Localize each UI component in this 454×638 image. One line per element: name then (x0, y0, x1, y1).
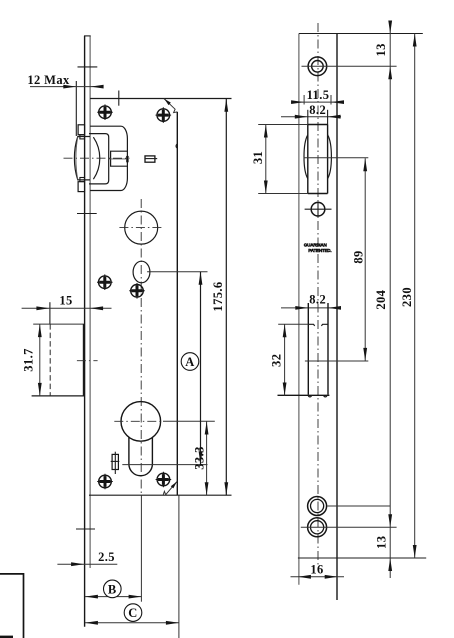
latch centerline (64, 157, 131, 159)
dimension 13 top / 204 / 13 bottom common line (389, 21, 391, 579)
plate right edge (336, 34, 338, 601)
dimension 31 extension lines (258, 124, 308, 126)
faceplate front edge line (84, 36, 86, 627)
plate vertical centerline (317, 23, 319, 570)
break zigzag top with arrow (164, 99, 177, 113)
faceplate back edge line (89, 36, 91, 568)
latch bolt head (74, 137, 90, 180)
screw S2 (156, 107, 172, 123)
dimension 11.5 ticks (303, 95, 305, 105)
case top line (90, 98, 231, 100)
svg-text:175.6: 175.6 (211, 281, 225, 311)
svg-text:32: 32 (270, 354, 284, 367)
frame bottom stub (0, 636, 13, 638)
latch mid extension line (304, 157, 369, 159)
small stop part mid line (145, 158, 157, 160)
svg-text:8.2: 8.2 (309, 292, 326, 306)
svg-text:PATENTED.: PATENTED. (308, 248, 331, 253)
small stop part right of latch (145, 156, 155, 162)
svg-text:89: 89 (352, 250, 366, 263)
deadbolt face line (305, 360, 368, 362)
svg-text:8.2: 8.2 (309, 103, 326, 117)
svg-text:2.5: 2.5 (98, 550, 115, 564)
cylinder center extension line (163, 420, 215, 422)
euro cylinder stem (129, 437, 153, 476)
dimension 31.7 arrows (38, 324, 42, 337)
hub housing hidden dashed line (49, 324, 51, 396)
cylinder horizontal centerline (114, 420, 163, 422)
vertical centerline through follower and cylinder (140, 199, 142, 495)
euro cylinder circle (121, 402, 161, 442)
label C circled (124, 604, 142, 622)
hub housing top line (33, 323, 84, 325)
deadbolt slot bottom (278, 394, 330, 396)
deadbolt top hooks (308, 324, 328, 326)
hub centerline (77, 360, 98, 362)
svg-text:15: 15 (59, 294, 72, 308)
retainer clip crossbar (111, 460, 120, 462)
spindle housing edge tick (126, 156, 128, 162)
spindle centerline (109, 158, 127, 160)
extension line lower bottom hole (301, 526, 397, 528)
dimension 15 arrows (36, 306, 49, 310)
screw S4 (129, 283, 145, 299)
label A circled (181, 353, 199, 371)
screw S1 (97, 104, 113, 120)
dimension A line (200, 272, 202, 465)
extension tick at x=118.8 (118, 91, 120, 106)
dimension 89 line (364, 158, 366, 361)
svg-text:204: 204 (374, 289, 388, 309)
retainer clip part (112, 454, 118, 469)
retainer clip pin (114, 452, 116, 474)
follower hole (125, 211, 158, 244)
dimension 175.6 line (225, 99, 227, 496)
dimension 2.5 leader line (57, 563, 117, 565)
svg-text:230: 230 (400, 287, 414, 307)
dimension 32 extension line (278, 323, 308, 325)
deadbolt slot edges (307, 303, 309, 395)
svg-text:12 Max: 12 Max (27, 73, 70, 87)
svg-text:A: A (185, 355, 194, 369)
svg-text:B: B (108, 582, 117, 596)
svg-text:13: 13 (375, 536, 389, 549)
dimension 31.7 line (39, 324, 41, 396)
svg-text:31: 31 (251, 151, 265, 164)
svg-text:C: C (128, 606, 137, 620)
dimension 12 Max extension line (75, 81, 77, 136)
screw S6 (156, 472, 172, 488)
dimension B line (85, 596, 142, 598)
follower horizontal centerline (119, 227, 162, 229)
dimension 16 line (291, 576, 345, 578)
svg-text:33.3: 33.3 (193, 446, 207, 469)
top mounting hole inner (312, 61, 324, 73)
extension line at stem tangent (122, 464, 207, 466)
svg-text:13: 13 (374, 43, 388, 56)
svg-text:31.7: 31.7 (22, 348, 36, 371)
bottom hole upper inner (311, 499, 324, 512)
screw S3 (97, 274, 113, 290)
dimension 11.5 line (291, 101, 344, 103)
extension line upper bottom hole (327, 505, 390, 507)
dimension 12 Max line (30, 86, 102, 88)
extension line case back (178, 495, 180, 638)
faceplate break tick bottom (76, 528, 95, 530)
plate top edge with extension (299, 33, 423, 35)
case bottom line (89, 494, 232, 496)
faceplate stop block bottom (78, 182, 84, 192)
dimension 33.3 line (206, 422, 208, 496)
latch bolt head inner line (76, 137, 78, 180)
faceplate stop step bottom (80, 178, 85, 182)
latch bolt seen in slot right (328, 135, 332, 179)
case right edge notch (176, 144, 177, 148)
svg-text:11.5: 11.5 (307, 88, 330, 102)
latch slot (308, 125, 328, 194)
bottom hole lower inner (311, 521, 324, 534)
dimension 8.2 bottom line (281, 307, 341, 309)
dimension 12 Max arrows (63, 85, 76, 89)
svg-text:16: 16 (310, 563, 323, 577)
plate left edge (298, 34, 300, 585)
faceplate break tick mid (77, 213, 97, 215)
faceplate top cap (84, 35, 91, 37)
oval hole (133, 261, 150, 283)
faceplate stop block top (78, 125, 84, 135)
dimension 15 line (22, 307, 112, 309)
dimension 32 line (284, 324, 286, 395)
break zigzag bottom with arrow (163, 482, 177, 495)
svg-text:GUARDIAN: GUARDIAN (304, 242, 328, 247)
latch slot extension edges (307, 110, 309, 125)
extension line top hole center (302, 65, 397, 67)
extension line from oval (147, 271, 207, 273)
dimension 8.2 top line (281, 116, 341, 118)
label B circled (104, 580, 122, 598)
spindle housing (111, 151, 128, 166)
fixing screw hole crosshair (311, 202, 325, 216)
plate bottom edge with extension (298, 557, 426, 559)
faceplate stop step top (80, 135, 85, 139)
title block frame corner (0, 574, 24, 638)
slot bottom curls (308, 395, 327, 397)
latch bolt seen in slot left (304, 135, 308, 179)
hub housing bottom line (32, 395, 85, 397)
bottom hole lower outer (308, 518, 327, 537)
dimension 230 line (414, 34, 416, 559)
top mounting hole outer (308, 57, 327, 76)
screw S5 (97, 474, 113, 490)
dimension 15 extension line (49, 302, 51, 324)
dimension C line (85, 622, 179, 624)
bottom hole upper outer (308, 497, 327, 516)
latch tail arc (93, 137, 99, 179)
latch box outer with notched corners (90, 126, 127, 190)
faceplate break tick top (78, 66, 98, 68)
dimension 31 line (265, 125, 267, 194)
latch inner channel (89, 134, 109, 184)
hub housing right edge (82, 324, 84, 396)
case right edge (176, 112, 178, 495)
centerline extension to B dimension (140, 495, 142, 602)
